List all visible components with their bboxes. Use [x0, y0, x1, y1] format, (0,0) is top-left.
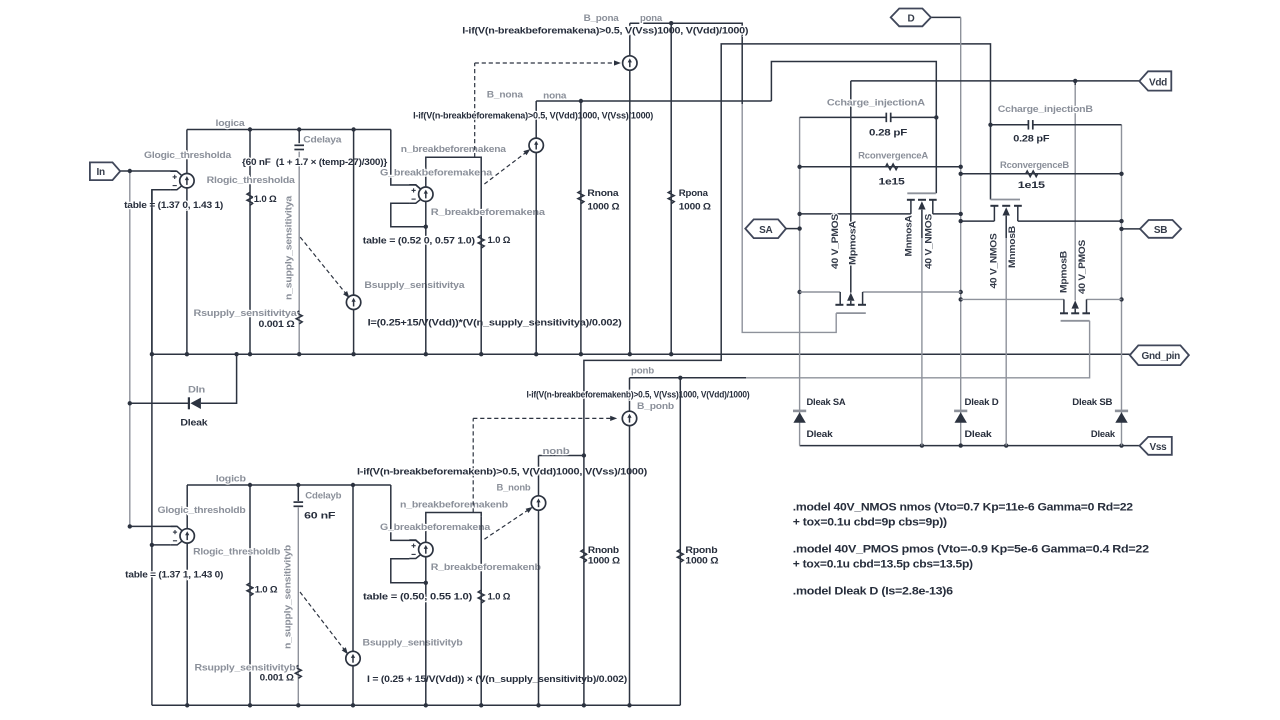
- wire G_breakbeforemakenb output column: [425, 557, 427, 706]
- value table G_breakbeforemakena: [363, 236, 475, 247]
- svg-text:1e15: 1e15: [879, 177, 906, 188]
- svg-text:1.0 Ω: 1.0 Ω: [488, 235, 511, 246]
- label G_breakbeforemakena: [380, 167, 493, 178]
- port Vdd: [1139, 71, 1171, 90]
- svg-text:Glogic_thresholdb: Glogic_thresholdb: [158, 505, 246, 516]
- resistor RconvergenceB: [1026, 171, 1038, 177]
- resistor Rnonb: [581, 549, 587, 562]
- value table Glogic_thresholdb: [125, 570, 223, 581]
- svg-text:Rnona: Rnona: [587, 188, 619, 199]
- label Glogic_thresholdb: [158, 505, 246, 516]
- wire Rnonb column: [583, 456, 585, 706]
- svg-text:0.28 pF: 0.28 pF: [1013, 133, 1049, 144]
- value Rnonb: [588, 556, 621, 567]
- svg-text:I = (0.25 + 15/V(Vdd)) × (V(n_: I = (0.25 + 15/V(Vdd)) × (V(n_supply_sen…: [367, 674, 627, 685]
- diode Dleak D: [954, 411, 967, 423]
- svg-text:table = (1.37 0, 1.43 1): table = (1.37 0, 1.43 1): [124, 200, 223, 211]
- svg-text:n_supply_sensitivitya: n_supply_sensitivitya: [284, 195, 295, 300]
- svg-text:Cdelayb: Cdelayb: [305, 491, 341, 502]
- port In: [90, 162, 120, 180]
- node pona label: [640, 13, 663, 24]
- wire SB column: [1119, 125, 1123, 410]
- resistor RconvergenceA: [886, 164, 898, 170]
- op-amp G_breakbeforemakena: [409, 185, 433, 204]
- svg-text:Dleak: Dleak: [180, 417, 208, 428]
- value Cdelayb: [304, 511, 335, 522]
- label B_nonb: [497, 482, 531, 493]
- svg-text:DIn: DIn: [188, 385, 205, 396]
- svg-text:+ tox=0.1u cbd=9p cbs=9p)): + tox=0.1u cbd=9p cbs=9p)): [793, 516, 948, 528]
- capacitor Ccharge_injectionB: [1028, 120, 1032, 130]
- value Cdelaya: [242, 157, 387, 168]
- svg-text:RconvergenceA: RconvergenceA: [858, 151, 928, 162]
- svg-text:0.001 Ω: 0.001 Ω: [260, 673, 295, 684]
- wire SB port stub: [1122, 228, 1141, 230]
- label Dleak D: [965, 397, 999, 408]
- transistor MnmosA: [907, 193, 937, 214]
- svg-text:Bsupply_sensitivitya: Bsupply_sensitivitya: [364, 280, 465, 291]
- svg-text:1.0 Ω: 1.0 Ω: [254, 194, 277, 205]
- wire Dleak SA column: [799, 410, 801, 446]
- svg-text:pona: pona: [640, 13, 663, 24]
- op-amp G_breakbeforemakenb: [409, 540, 433, 559]
- svg-text:I-if(V(n-breakbeforemakena)>0.: I-if(V(n-breakbeforemakena)>0.5, V(Vdd)1…: [413, 111, 653, 122]
- wire G_breakbeforemakena output column: [425, 201, 427, 354]
- wire n_breakbeforemakena bracket: [426, 157, 481, 187]
- svg-text:B_pona: B_pona: [584, 13, 620, 24]
- wire G_breakbeforemakena minus loop: [391, 203, 428, 229]
- wire dashed ref nbbma to B_nona: [484, 149, 530, 184]
- svg-text:{60 nF (1 + 1.7 × (temp-27)/3: {60 nF (1 + 1.7 × (temp-27)/300)}: [242, 157, 387, 168]
- label Rlogic_thresholda: [207, 175, 296, 186]
- node logica label: [216, 118, 246, 129]
- wire R_breakbeforemakena column: [480, 161, 482, 354]
- svg-text:nona: nona: [543, 91, 567, 102]
- value Rlogic_thresholda: [254, 194, 277, 205]
- text model 40V_PMOS: [793, 543, 1149, 570]
- svg-text:1000 Ω: 1000 Ω: [685, 556, 719, 567]
- label MnmosA: [903, 215, 914, 256]
- svg-text:Ccharge_injectionB: Ccharge_injectionB: [998, 104, 1093, 115]
- wire MnmosA source-drain bus: [800, 213, 961, 215]
- current source Bsupply_sensitivityb: [346, 651, 360, 665]
- svg-text:MnmosB: MnmosB: [1006, 226, 1017, 268]
- diode Dleak SA: [793, 411, 806, 423]
- resistor R_breakbeforemakenb: [478, 590, 484, 603]
- wire Cdelaya column: [298, 130, 300, 355]
- wire Rnona column: [580, 101, 582, 354]
- wire MpmosB bulk from Vdd: [1071, 300, 1078, 313]
- svg-text:I-if(V(n-breakbeforemakena)>0.: I-if(V(n-breakbeforemakena)>0.5, V(Vss)1…: [462, 26, 748, 37]
- wire Rpona column: [670, 23, 672, 354]
- svg-text:nonb: nonb: [543, 446, 570, 457]
- wire internal ground rail: [152, 352, 1130, 356]
- svg-text:40 V_NMOS: 40 V_NMOS: [988, 234, 999, 289]
- label RconvergenceA: [858, 151, 928, 162]
- wire logicb bus: [187, 483, 391, 487]
- wire dashed ref nbbmb to B_nonb: [484, 507, 532, 539]
- resistor Rnona: [578, 191, 584, 204]
- node logicb label: [216, 473, 246, 484]
- port SB: [1140, 220, 1181, 238]
- svg-text:In: In: [97, 167, 105, 178]
- svg-text:1000 Ω: 1000 Ω: [587, 201, 620, 212]
- svg-text:Rsupply_sensitivitya: Rsupply_sensitivitya: [194, 308, 298, 319]
- capacitor Cdelaya: [294, 145, 304, 149]
- wire RconvergenceB branch: [961, 173, 1122, 175]
- resistor R_breakbeforemakena: [478, 235, 484, 248]
- label DIn: [188, 385, 205, 396]
- wire Glogic_thresholdb plus wire: [128, 524, 177, 528]
- text model 40V_NMOS: [793, 501, 1133, 528]
- current source Bsupply_sensitivitya: [346, 295, 360, 309]
- value Rsupply_sensitivitya: [259, 319, 296, 330]
- resistor Rponb: [677, 549, 683, 562]
- svg-text:MnmosA: MnmosA: [903, 215, 914, 256]
- label Rnona: [587, 188, 619, 199]
- svg-text:Cdelaya: Cdelaya: [303, 134, 342, 145]
- wire Bsupply_sensitivityb column: [352, 485, 354, 705]
- svg-text:40 V_PMOS: 40 V_PMOS: [829, 214, 840, 269]
- port D: [891, 9, 931, 27]
- svg-text:MpmosB: MpmosB: [1058, 251, 1069, 293]
- svg-text:Rpona: Rpona: [679, 188, 709, 199]
- wire B_nonb column: [538, 456, 540, 706]
- label R_breakbeforemakenb: [431, 562, 541, 573]
- svg-text:Dleak SB: Dleak SB: [1072, 397, 1112, 408]
- capacitor Ccharge_injectionA: [886, 113, 890, 123]
- value MpmosB model: [1076, 240, 1087, 294]
- svg-text:SA: SA: [759, 225, 772, 236]
- svg-text:B_ponb: B_ponb: [637, 401, 674, 412]
- svg-text:Vss: Vss: [1150, 442, 1168, 453]
- svg-text:R_breakbeforemakena: R_breakbeforemakena: [431, 207, 546, 218]
- label G_breakbeforemakenb: [380, 522, 491, 533]
- svg-text:Dleak D: Dleak D: [965, 397, 999, 408]
- value Ccharge_injectionA: [869, 127, 907, 138]
- svg-text:.model 40V_PMOS pmos (Vto=-0.9: .model 40V_PMOS pmos (Vto=-0.9 Kp=5e-6 G…: [793, 543, 1149, 555]
- wire Glogic minus loop: [150, 190, 171, 357]
- diode DIn: [189, 397, 201, 409]
- wire ponb net: [630, 321, 1090, 380]
- label B_ponb: [637, 401, 674, 412]
- svg-text:R_breakbeforemakenb: R_breakbeforemakenb: [431, 562, 541, 573]
- value DIn Dleak: [180, 417, 208, 428]
- label Cdelaya: [303, 134, 342, 145]
- label Dleak SA: [807, 397, 846, 408]
- svg-text:Gnd_pin: Gnd_pin: [1142, 351, 1181, 362]
- svg-text:D: D: [908, 14, 915, 25]
- resistor Rsupply_sensitivitya: [296, 311, 302, 324]
- label Ccharge_injectionA: [827, 98, 925, 109]
- wire Glogic_thresholda column: [186, 130, 188, 355]
- wire minus column A-B: [151, 190, 153, 706]
- wire Dleak SB column: [1121, 410, 1123, 446]
- wire Rponb column: [679, 378, 681, 706]
- wire D net: [931, 17, 963, 445]
- svg-text:I-if(V(n-breakbeforemakenb)>0.: I-if(V(n-breakbeforemakenb)>0.5, V(Vdd)1…: [357, 466, 647, 477]
- current source B_ponb: [622, 411, 636, 425]
- svg-text:.model Dleak D (Is=2.8e-13)6: .model Dleak D (Is=2.8e-13)6: [793, 585, 953, 597]
- value R_breakbeforemakenb: [488, 592, 511, 603]
- node n_breakbeforemakenb label: [400, 500, 508, 511]
- wire B_pona column: [629, 23, 631, 354]
- svg-text:Dleak: Dleak: [965, 429, 993, 440]
- node n_supply_sensitivitya label: [284, 195, 295, 300]
- svg-text:table = (0.50, 0.55 1.0): table = (0.50, 0.55 1.0): [363, 592, 472, 603]
- wire Rlogic_thresholda column: [249, 130, 251, 355]
- svg-text:Rlogic_thresholda: Rlogic_thresholda: [207, 175, 296, 186]
- svg-text:1000 Ω: 1000 Ω: [679, 201, 712, 212]
- wire Vss rail: [800, 443, 1140, 447]
- wire B_ponb column: [629, 378, 631, 706]
- label Rsupply_sensitivitya: [194, 308, 298, 319]
- port Gnd_pin: [1130, 345, 1189, 365]
- svg-text:Rnonb: Rnonb: [588, 545, 619, 556]
- label MpmosB: [1058, 251, 1069, 293]
- wire logica to G_breakbeforemakena plus: [391, 130, 421, 190]
- transistor MpmosB: [1060, 299, 1090, 320]
- svg-text:Rlogic_thresholdb: Rlogic_thresholdb: [193, 547, 280, 558]
- label Dleak SB: [1072, 397, 1112, 408]
- value Rponb: [685, 556, 719, 567]
- wire nonb net: [539, 44, 991, 458]
- wire Ccharge_injectionA branch: [800, 115, 939, 119]
- wire dashed ref n_supply to Bsupplya: [300, 237, 349, 298]
- label MnmosB: [1006, 226, 1017, 268]
- svg-text:ponb: ponb: [631, 366, 654, 377]
- svg-text:1.0 Ω: 1.0 Ω: [255, 584, 278, 595]
- label Rponb: [685, 545, 717, 556]
- wire Rlogic_thresholdb column: [249, 485, 251, 705]
- wire Din branch: [128, 354, 237, 405]
- svg-text:n_breakbeforemakenb: n_breakbeforemakenb: [400, 500, 508, 511]
- svg-text:logica: logica: [216, 118, 246, 129]
- value Bsupply_sensitivitya: [368, 317, 622, 328]
- wire Ccharge_injectionB branch: [988, 123, 1121, 127]
- svg-text:0.001 Ω: 0.001 Ω: [259, 319, 296, 330]
- svg-text:Bsupply_sensitivityb: Bsupply_sensitivityb: [363, 637, 463, 648]
- label Rpona: [679, 188, 709, 199]
- value MnmosA model: [923, 214, 934, 269]
- wire Bsupply_sensitivitya column: [353, 130, 355, 355]
- wire dashed ref nbbma to B_pona: [475, 60, 621, 157]
- svg-text:40 V_PMOS: 40 V_PMOS: [1076, 240, 1087, 294]
- value Rlogic_thresholdb: [255, 584, 278, 595]
- current source B_nona: [529, 138, 543, 152]
- wire logicb to G_breakbeforemakenb plus: [391, 485, 421, 545]
- label RconvergenceB: [1000, 160, 1069, 171]
- resistor Rlogic_thresholdb: [247, 583, 253, 596]
- resistor Rpona: [668, 191, 674, 204]
- wire nona net: [536, 62, 936, 194]
- svg-text:40 V_NMOS: 40 V_NMOS: [923, 214, 934, 269]
- wire pona net: [630, 21, 836, 332]
- label Rlogic_thresholdb: [193, 547, 280, 558]
- value Dleak SB: [1091, 429, 1116, 440]
- node ponb label: [631, 366, 654, 377]
- wire Glogic_thresholdb column: [186, 485, 188, 705]
- label R_breakbeforemakena: [431, 207, 546, 218]
- value RconvergenceB: [1018, 180, 1046, 191]
- svg-text:0.28 pF: 0.28 pF: [869, 127, 907, 138]
- node n_supply_sensitivityb label: [283, 545, 294, 649]
- node nona label: [543, 91, 567, 102]
- value B_nona: [413, 111, 653, 122]
- svg-text:Dleak: Dleak: [1091, 429, 1116, 440]
- value Rnona: [587, 201, 620, 212]
- svg-text:1.0 Ω: 1.0 Ω: [488, 592, 511, 603]
- svg-text:Ccharge_injectionA: Ccharge_injectionA: [827, 98, 925, 109]
- label B_nona: [487, 90, 524, 101]
- value B_pona: [462, 26, 748, 37]
- label Bsupply_sensitivitya: [364, 280, 465, 291]
- label Glogic_thresholda: [144, 150, 232, 161]
- value table G_breakbeforemakenb: [363, 592, 472, 603]
- op-amp Glogic_thresholdb: [171, 526, 195, 545]
- wire SA port stub: [786, 228, 800, 230]
- wire dashed ref n_supplyb to Bsupplyb: [300, 592, 348, 654]
- svg-text:60 nF: 60 nF: [304, 511, 335, 522]
- text model Dleak: [793, 585, 953, 597]
- svg-text:Rponb: Rponb: [685, 545, 717, 556]
- value Ccharge_injectionB: [1013, 133, 1049, 144]
- wire MpmosA bulk from Vdd: [847, 293, 854, 305]
- label Cdelayb: [305, 491, 341, 502]
- svg-text:B_nonb: B_nonb: [497, 482, 531, 493]
- label Ccharge_injectionB: [998, 104, 1093, 115]
- capacitor Cdelayb: [294, 502, 304, 506]
- value R_breakbeforemakena: [488, 235, 511, 246]
- transistor MpmosA: [835, 292, 866, 313]
- value Rsupply_sensitivityb: [260, 673, 295, 684]
- value B_ponb: [527, 389, 750, 400]
- wire MpmosA bus: [800, 291, 961, 293]
- wire Vdd net: [851, 79, 1140, 301]
- svg-text:Dleak: Dleak: [807, 429, 834, 440]
- svg-text:SB: SB: [1154, 225, 1167, 236]
- wire R_breakbeforemakenb column: [480, 516, 482, 705]
- svg-text:G_breakbeforemakena: G_breakbeforemakena: [380, 522, 491, 533]
- value MnmosB model: [988, 234, 999, 289]
- node n_breakbeforemakena label: [401, 144, 507, 155]
- wire RconvergenceA branch: [800, 166, 961, 168]
- svg-text:n_supply_sensitivityb: n_supply_sensitivityb: [283, 545, 294, 649]
- svg-text:Glogic_thresholda: Glogic_thresholda: [144, 150, 232, 161]
- value Dleak SA: [807, 429, 834, 440]
- value RconvergenceA: [879, 177, 906, 188]
- resistor Rsupply_sensitivityb: [295, 665, 301, 678]
- wire In net: [120, 169, 176, 527]
- transistor MnmosB: [990, 200, 1021, 222]
- value Rpona: [679, 201, 712, 212]
- wire B_nona column: [535, 101, 537, 354]
- wire dashed ref nbbmb to B_ponb: [473, 416, 617, 513]
- label Rnonb: [588, 545, 619, 556]
- value table Glogic_thresholda: [124, 200, 223, 211]
- wire logica bus: [187, 127, 391, 131]
- op-amp Glogic_thresholda: [170, 171, 194, 190]
- label MpmosA: [847, 221, 858, 265]
- svg-text:n_breakbeforemakena: n_breakbeforemakena: [401, 144, 507, 155]
- label B_pona: [584, 13, 620, 24]
- current source B_pona: [623, 56, 637, 70]
- svg-text:MpmosA: MpmosA: [847, 221, 858, 265]
- value Dleak D: [965, 429, 993, 440]
- svg-text:table = (0.52 0, 0.57 1.0): table = (0.52 0, 0.57 1.0): [363, 236, 475, 247]
- svg-text:+ tox=0.1u cbd=13.5p cbs=13.5p: + tox=0.1u cbd=13.5p cbs=13.5p): [793, 558, 974, 570]
- svg-text:I-if(V(n-breakbeforemakenb)>0.: I-if(V(n-breakbeforemakenb)>0.5, V(Vss)1…: [527, 389, 750, 400]
- port Vss: [1140, 437, 1172, 455]
- wire G_breakbeforemakenb minus loop: [391, 559, 428, 585]
- svg-text:B_nona: B_nona: [487, 90, 524, 101]
- wire Cdelayb column: [297, 485, 299, 705]
- wire MnmosB bus: [961, 220, 1122, 222]
- label Rsupply_sensitivityb: [195, 662, 296, 673]
- wire MpmosB bus: [961, 298, 1122, 300]
- svg-text:RconvergenceB: RconvergenceB: [1000, 160, 1069, 171]
- svg-text:.model 40V_NMOS nmos (Vto=0.7: .model 40V_NMOS nmos (Vto=0.7 Kp=11e-6 G…: [793, 501, 1133, 513]
- port SA: [745, 219, 786, 238]
- label Bsupply_sensitivityb: [363, 637, 463, 648]
- value Bsupply_sensitivityb: [367, 674, 627, 685]
- svg-text:1e15: 1e15: [1018, 180, 1046, 191]
- current source B_nonb: [531, 496, 545, 510]
- svg-text:Vdd: Vdd: [1149, 77, 1167, 88]
- wire bottom bus: [152, 703, 680, 707]
- resistor Rlogic_thresholda: [247, 192, 253, 205]
- svg-text:1000 Ω: 1000 Ω: [588, 556, 621, 567]
- svg-text:table = (1.37 1, 1.43 0): table = (1.37 1, 1.43 0): [125, 570, 223, 581]
- wire MnmosB bulk to Vss: [1003, 207, 1010, 445]
- node nonb label: [543, 446, 570, 457]
- wire MnmosA bulk to Vss: [918, 201, 925, 445]
- value B_nonb: [357, 466, 647, 477]
- svg-text:G_breakbeforemakena: G_breakbeforemakena: [380, 167, 493, 178]
- diode Dleak SB: [1115, 411, 1128, 423]
- wire SA column: [797, 117, 801, 410]
- value MpmosA model: [829, 214, 840, 269]
- wire Glogicb minus loop: [150, 543, 171, 547]
- svg-text:logicb: logicb: [216, 473, 246, 484]
- svg-text:Dleak SA: Dleak SA: [807, 397, 846, 408]
- svg-text:I=(0.25+15/V(Vdd))*(V(n_supply: I=(0.25+15/V(Vdd))*(V(n_supply_sensitivi…: [368, 317, 622, 328]
- wire n_breakbeforemakenb bracket: [426, 513, 481, 543]
